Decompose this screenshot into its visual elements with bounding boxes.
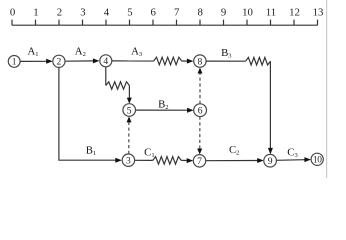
- svg-text:2: 2: [57, 57, 62, 68]
- node 9: [264, 154, 277, 167]
- svg-text:6: 6: [150, 7, 156, 19]
- node 3: [122, 154, 134, 167]
- node 1: [8, 56, 20, 68]
- svg-text:13: 13: [313, 7, 324, 19]
- activity C1 line 3->zigzag: [135, 159, 153, 161]
- svg-text:7: 7: [174, 7, 180, 19]
- dummy 3->5 dashed arrow up: [127, 116, 132, 154]
- svg-text:11: 11: [266, 7, 276, 19]
- svg-text:6: 6: [198, 106, 203, 117]
- svg-text:2: 2: [57, 7, 62, 19]
- ruler ticks 0-13: [12, 20, 318, 26]
- A3 float zigzag: [154, 57, 182, 65]
- svg-text:0: 0: [10, 7, 15, 19]
- float link 4->5: vertical from node 4: [105, 67, 107, 86]
- activity B3 line 8->zigzag: [206, 60, 246, 62]
- svg-text:1: 1: [33, 7, 38, 19]
- svg-text:9: 9: [268, 156, 273, 167]
- svg-text:9: 9: [221, 7, 226, 19]
- float link 4->5 arrow down into node 5: [127, 86, 132, 104]
- svg-text:7: 7: [197, 156, 202, 167]
- node 2: [53, 55, 65, 67]
- svg-text:3: 3: [80, 7, 85, 19]
- ruler numbers 0-13: [10, 7, 324, 19]
- A3 arrow into node 8: [182, 59, 194, 64]
- node 10: [311, 153, 323, 165]
- float link 4->5 zigzag: [106, 82, 130, 89]
- svg-text:5: 5: [127, 105, 132, 116]
- node 5: [123, 104, 136, 117]
- node 8: [194, 55, 206, 68]
- activity C2 arrow 7->9: [206, 158, 264, 163]
- B3 vertical drop into node 9: [268, 61, 273, 154]
- svg-text:10: 10: [242, 7, 253, 19]
- svg-text:10: 10: [313, 156, 322, 166]
- scan border line right: [326, 0, 328, 178]
- svg-text:4: 4: [104, 7, 110, 19]
- B3 float zigzag: [246, 57, 271, 65]
- activity B1 elbow 2->3: [59, 68, 122, 163]
- activity C3 arrow 9->10: [276, 157, 311, 162]
- node 4: [100, 55, 112, 67]
- node 7: [193, 155, 205, 168]
- activity A2 arrow 2->4: [65, 58, 99, 63]
- activity A3 line 4->zigzag: [112, 60, 154, 62]
- svg-text:8: 8: [198, 56, 203, 67]
- svg-text:12: 12: [289, 7, 300, 19]
- svg-text:3: 3: [126, 156, 131, 167]
- node 6: [194, 104, 207, 117]
- svg-text:5: 5: [127, 7, 132, 19]
- svg-text:8: 8: [197, 7, 202, 19]
- C1 arrow into node 7: [181, 158, 193, 163]
- svg-text:1: 1: [12, 57, 17, 68]
- time-scale ruler line: [12, 24, 318, 26]
- dummy 6->8 dashed arrow up: [198, 68, 203, 105]
- dummy 6->7 dashed arrow down: [197, 117, 202, 155]
- svg-text:4: 4: [103, 56, 108, 67]
- C1 float zigzag: [153, 157, 181, 165]
- activity B2 arrow 5->6: [136, 108, 194, 113]
- activity A1 arrow 1->2: [20, 59, 52, 64]
